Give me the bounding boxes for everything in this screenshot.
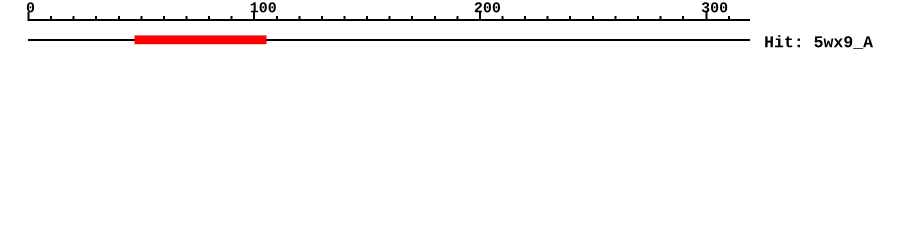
- minor tick 260: [614, 16, 616, 21]
- minor tick 120: [298, 16, 300, 21]
- minor tick 60: [163, 16, 165, 21]
- red hit bar: [135, 35, 267, 44]
- minor tick 40: [118, 16, 120, 21]
- minor tick 190: [456, 16, 458, 21]
- ruler label 100: [251, 2, 276, 12]
- ruler label 0: [27, 2, 34, 12]
- minor tick 140: [344, 16, 346, 21]
- minor tick 310: [728, 16, 730, 21]
- major tick 200: [479, 12, 481, 21]
- major tick 100: [253, 12, 255, 21]
- minor tick 210: [502, 16, 504, 21]
- minor tick 150: [366, 16, 368, 21]
- minor tick 50: [140, 16, 142, 21]
- minor tick 80: [208, 16, 210, 21]
- ruler label 300: [702, 2, 727, 12]
- minor tick 20: [73, 16, 75, 21]
- minor tick 230: [547, 16, 549, 21]
- minor tick 220: [524, 16, 526, 21]
- minor tick 30: [95, 16, 97, 21]
- minor tick 180: [434, 16, 436, 21]
- minor tick 130: [321, 16, 323, 21]
- major tick 300: [706, 12, 708, 21]
- hit label text: [765, 35, 873, 49]
- ruler label 200: [475, 2, 500, 12]
- minor tick 170: [411, 16, 413, 21]
- minor tick 290: [682, 16, 684, 21]
- minor tick 250: [592, 16, 594, 21]
- minor tick 270: [637, 16, 639, 21]
- minor tick 110: [276, 16, 278, 21]
- minor tick 240: [569, 16, 571, 21]
- ruler axis line: [28, 19, 750, 21]
- minor tick 280: [660, 16, 662, 21]
- hit baseline wire: [28, 39, 750, 41]
- minor tick 160: [389, 16, 391, 21]
- minor tick 90: [231, 16, 233, 21]
- minor tick 70: [186, 16, 188, 21]
- major tick 0: [28, 12, 30, 21]
- minor tick 10: [50, 16, 52, 21]
